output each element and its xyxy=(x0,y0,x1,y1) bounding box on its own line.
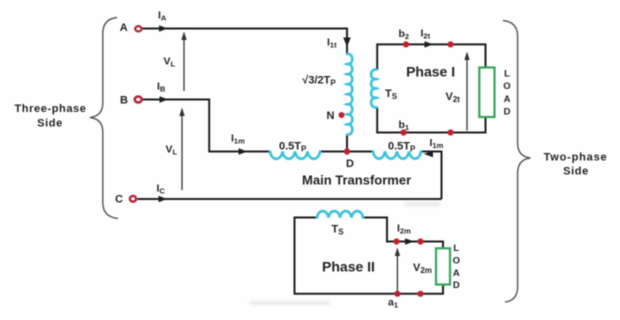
svg-text:√3/2TP: √3/2TP xyxy=(302,74,336,87)
svg-text:0.5TP: 0.5TP xyxy=(388,141,416,154)
svg-text:A: A xyxy=(120,22,128,34)
svg-text:Main Transformer: Main Transformer xyxy=(302,173,411,188)
svg-text:Side: Side xyxy=(563,165,589,177)
svg-text:O: O xyxy=(503,81,510,92)
svg-text:A: A xyxy=(453,268,460,279)
svg-text:L: L xyxy=(504,69,510,80)
svg-text:a1: a1 xyxy=(388,297,398,310)
svg-text:TS: TS xyxy=(332,224,345,237)
svg-text:D: D xyxy=(453,280,460,291)
svg-text:TS: TS xyxy=(385,88,398,101)
svg-text:O: O xyxy=(453,256,460,267)
svg-text:I1m: I1m xyxy=(231,133,245,146)
svg-text:I2t: I2t xyxy=(421,27,431,40)
svg-text:D: D xyxy=(346,158,354,170)
svg-text:B: B xyxy=(120,94,128,106)
svg-text:L: L xyxy=(453,243,459,254)
svg-text:I2m: I2m xyxy=(397,222,411,235)
svg-text:N: N xyxy=(327,110,335,122)
svg-text:0.5TP: 0.5TP xyxy=(279,141,307,154)
svg-text:IC: IC xyxy=(157,183,166,196)
svg-text:V2t: V2t xyxy=(446,91,461,104)
svg-text:VL: VL xyxy=(166,144,178,157)
svg-text:b1: b1 xyxy=(399,119,410,132)
svg-text:IA: IA xyxy=(158,10,167,23)
svg-text:Two-phase: Two-phase xyxy=(544,151,608,163)
svg-text:A: A xyxy=(504,94,511,105)
svg-text:VL: VL xyxy=(164,56,176,69)
svg-text:Phase II: Phase II xyxy=(322,259,375,275)
svg-text:IB: IB xyxy=(157,81,166,94)
svg-text:b2: b2 xyxy=(399,28,410,41)
svg-text:I1t: I1t xyxy=(327,37,337,50)
svg-text:Three-phase: Three-phase xyxy=(14,103,86,115)
svg-text:C: C xyxy=(115,194,123,206)
svg-text:D: D xyxy=(504,107,511,118)
svg-text:Phase I: Phase I xyxy=(406,64,455,80)
svg-text:Side: Side xyxy=(37,117,63,129)
svg-text:V2m: V2m xyxy=(413,262,432,275)
svg-text:I1m: I1m xyxy=(430,137,444,150)
